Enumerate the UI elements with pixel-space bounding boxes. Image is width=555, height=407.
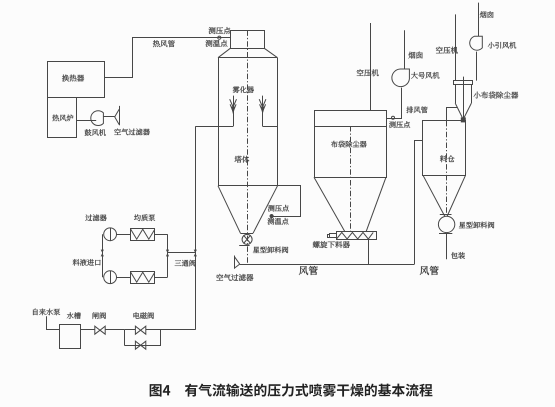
label 料仓 xyxy=(440,155,455,162)
wire top branch xyxy=(117,234,131,236)
wire solenoid loop to three-way riser xyxy=(161,329,195,331)
label 电磁阀 xyxy=(134,312,154,319)
solenoid valve 电磁阀 (bottom) xyxy=(135,341,140,349)
wire tank to gate valve xyxy=(80,329,95,331)
rotary discharge valve 星型卸料阀 (tower) xyxy=(242,234,252,244)
pump loop left rail xyxy=(102,234,104,277)
label 空气过滤器 (duct) xyxy=(216,274,253,281)
pressure tap marker at tower inlet xyxy=(218,36,221,39)
exhaust wire fan to bag filter 排风管 xyxy=(386,88,402,119)
homogenizing pump (top) 均质泵 xyxy=(131,229,155,241)
heat exchanger box 换热器 xyxy=(48,62,105,98)
small filter discharge dot xyxy=(461,118,465,122)
tower cone xyxy=(218,186,241,234)
caption 图4 有气流输送的压力式喷雾干燥的基本流程 xyxy=(150,384,433,397)
label 测压点 (tower inlet) xyxy=(209,27,231,34)
wire bottom branch xyxy=(117,277,131,279)
label 大号风机 xyxy=(411,72,439,79)
pressure tap marker (bag filter) xyxy=(392,116,395,119)
screw outlet wire to duct xyxy=(368,239,370,264)
silo box 料仓 xyxy=(423,121,466,176)
tower shoulder right xyxy=(264,48,277,57)
nozzle feed header left xyxy=(218,126,233,128)
chimney wire 烟囱 (small fan) xyxy=(478,3,480,37)
label 测温点 (tower inlet) xyxy=(206,40,228,47)
tower neck xyxy=(231,31,265,49)
wire furnace to blower xyxy=(77,120,96,122)
label 雾化器 atomizer xyxy=(233,86,254,93)
label 空压机 (left) xyxy=(357,69,379,76)
tower body 塔体 xyxy=(218,58,220,186)
label 测压点 (tower outlet) xyxy=(268,205,289,212)
conveying duct 风管 horizontal wire xyxy=(240,264,415,266)
label 测温点 (tower outlet) xyxy=(267,218,288,225)
silo vent wire xyxy=(447,108,458,121)
tower axis line xyxy=(247,30,249,264)
label 料液进口 xyxy=(73,259,101,266)
label 均质泵 xyxy=(134,214,155,221)
screw discharger 螺旋下料器 xyxy=(337,232,377,240)
loop outlet junction node xyxy=(166,250,169,253)
tower shoulder base line xyxy=(218,57,278,59)
silo axis line xyxy=(446,121,448,214)
label 空压机 (right) xyxy=(436,47,458,54)
label 空气过滤器 xyxy=(114,129,150,136)
exhaust fan 大号风机 xyxy=(392,69,410,87)
small induced draft fan 小引风机 xyxy=(470,36,483,50)
pump loop right rail xyxy=(167,234,169,277)
blower fan 鼓风机 xyxy=(91,111,104,126)
label 热风管 xyxy=(153,40,175,47)
label 闸阀 xyxy=(93,312,106,319)
tower outlet tap wire xyxy=(272,186,301,217)
atomizer nozzle left xyxy=(233,96,235,127)
label 风管 (left) xyxy=(299,266,318,275)
solenoid valve 电磁阀 (top) xyxy=(124,329,135,331)
silo cone xyxy=(423,175,445,216)
label 烟囱 (main) xyxy=(408,52,422,59)
wire gate valve to solenoid loop xyxy=(105,329,124,331)
label 排风管 xyxy=(407,106,428,113)
bag filter cone xyxy=(314,177,345,232)
label 螺旋下料器 xyxy=(313,241,350,248)
label 小布袋除尘器 xyxy=(474,92,519,99)
label 布袋除尘器 xyxy=(331,141,367,148)
compressed air wire 空压机 (bag filter) xyxy=(370,23,372,111)
nozzle feed header right xyxy=(263,126,278,128)
compressed air wire 空压机 (small filter) xyxy=(455,14,457,80)
air filter 空气过滤器 (duct inlet) xyxy=(234,256,236,269)
three-way valve 三通阀 node xyxy=(194,250,197,253)
solenoid valve loop rails xyxy=(124,330,126,345)
filter (top) 过滤器 xyxy=(104,228,117,241)
atomizer nozzle right xyxy=(262,96,264,127)
rotary discharge valve 星型卸料阀 (silo) xyxy=(438,216,454,232)
suction wire fan to small filter xyxy=(476,52,478,81)
bag filter box 布袋除尘器 xyxy=(315,111,387,178)
label 风管 (right) xyxy=(420,266,439,275)
tap point dot xyxy=(270,215,273,218)
label 过滤器 xyxy=(85,214,106,221)
label 塔体 xyxy=(235,156,250,163)
feed riser wire to atomizer xyxy=(195,127,197,330)
label 换热器 xyxy=(62,75,84,82)
label 三通阀 xyxy=(175,260,196,267)
label 烟囱 (small) xyxy=(480,11,494,18)
wire blower to air filter xyxy=(103,116,114,118)
duct riser wire to silo xyxy=(415,141,424,265)
small bag filter 小布袋除尘器 xyxy=(454,81,473,85)
label 热风炉 xyxy=(52,115,73,122)
water tank 水槽 xyxy=(60,325,81,349)
homogenizing pump (bottom) 均质泵 xyxy=(131,272,155,284)
chimney wire 烟囱 (main) xyxy=(404,30,406,69)
label 测压点 (bag filter) xyxy=(389,121,410,128)
bag filter axis line xyxy=(350,126,352,232)
gate valve 闸阀 xyxy=(95,326,100,334)
label 鼓风机 xyxy=(85,129,106,136)
filter (bottom) 过滤器 xyxy=(104,271,117,284)
label 自来水泵 xyxy=(33,309,60,316)
hot air pipe 热风管 wire to tower top xyxy=(104,38,230,78)
wire loop to three-way valve xyxy=(168,252,196,254)
label 包装 xyxy=(451,252,465,259)
label 小引风机 xyxy=(488,42,516,49)
feed inlet junction node xyxy=(101,250,104,253)
tower shoulder left xyxy=(218,48,230,57)
label 星型卸料阀 xyxy=(253,246,288,253)
hot air furnace box 热风炉 xyxy=(48,98,77,138)
label 水槽 xyxy=(67,312,81,319)
tap water inlet wire xyxy=(47,316,60,329)
tower cone outlet line xyxy=(241,233,254,235)
feed inlet stub 料液进口 xyxy=(102,253,104,260)
air filter 空气过滤器 (inlet) xyxy=(119,106,121,125)
label 星型卸料阀 (silo) xyxy=(459,222,494,229)
packing outlet wire xyxy=(446,234,448,260)
silo cone outlet line xyxy=(440,214,452,216)
